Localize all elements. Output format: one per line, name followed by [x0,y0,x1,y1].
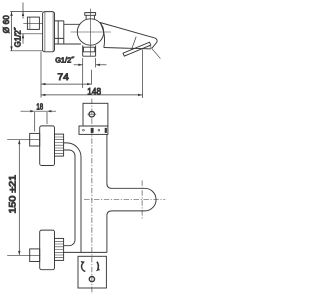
stub hex shading right [94,47,95,51]
tube outer edge [64,143,81,253]
wall union block [23,17,42,29]
wall bracket plate [83,103,108,126]
stub hex shading left [83,47,84,51]
union leader bottom [7,254,40,256]
rotate arrow right [96,262,100,272]
svg-text:148: 148 [87,87,101,97]
svg-text:Ø 60: Ø 60 [2,15,11,33]
spout cone [100,23,104,48]
horizontal centerline [71,31,112,33]
rotate arrow left [81,261,86,272]
dimension Ø60 line [10,12,12,51]
aerator axis centerline [149,45,160,58]
vertical centerline [90,9,92,57]
dimension 18 [21,110,57,132]
dimension 150+21 [18,140,20,256]
aerator tick on cone [132,37,137,50]
dimension G1/2 line [22,3,24,44]
symbol box [78,256,106,288]
dim ext line knob center [91,70,93,85]
wall escutcheon top union [30,133,40,146]
mounting strip [79,126,108,134]
svg-text:G1/2˝: G1/2˝ [55,55,74,64]
tube inner edge [64,150,75,246]
dimension 148 [41,94,143,96]
dim ext line wall [40,52,42,98]
union leader top [7,139,40,141]
svg-text:G1/2˝: G1/2˝ [13,26,22,47]
screw hole [87,111,96,117]
dim ext line G1/2 (y=33.8) [20,33,43,35]
column right edge lower [106,216,108,253]
aerator band [123,42,151,56]
body neck [55,21,82,44]
column right edge upper [106,134,108,183]
dim ext line spout tip [142,50,144,98]
svg-text:18: 18 [36,103,43,112]
union body bottom [40,230,55,270]
wall flange escutcheon (side view) [43,12,55,52]
shower outlet stub [83,45,96,56]
union body top [40,126,55,166]
indicator ring [89,277,94,282]
knurled nut top [55,134,64,156]
dimension G1/2 stub lines [74,58,107,88]
column centerline (vertical dash-dot) [91,99,93,294]
svg-text:150 ±21: 150 ±21 [8,175,18,214]
dome horizontal centerline (dash-dot) [84,199,165,201]
dim ext line bottom (y=50.8) [10,50,43,52]
knurled nut bottom [55,238,64,260]
flange inner edge left [44,12,46,52]
spout dome (plan) [107,184,156,216]
dome vertical centerline (dash-dot) [141,180,143,219]
handle knob circle [77,19,103,45]
column bottom edge [64,251,107,253]
knob top button [85,13,96,20]
wall escutcheon bottom union [30,249,40,262]
spout bottom edge [104,48,151,49]
flange inner edge right [52,12,54,52]
spout top edge [100,23,155,39]
dimension 74 [41,83,92,85]
spout nose [152,38,157,48]
dim ext line top (y=11.6) [10,11,42,13]
svg-text:74: 74 [57,72,68,82]
